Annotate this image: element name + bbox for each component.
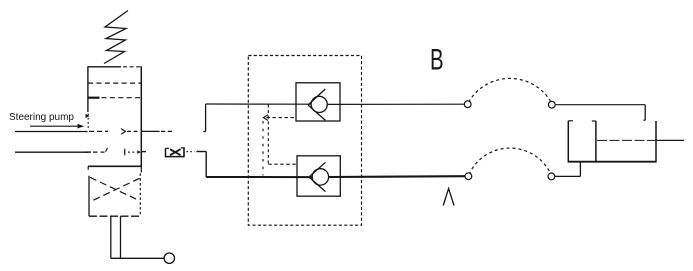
dotted link after coupling [187, 151, 195, 153]
line from A coupler to cylinder base [555, 162, 581, 176]
valve section divider 2 [88, 97, 141, 99]
coupler circle A right [548, 173, 555, 180]
valve section divider (dashed) [88, 82, 141, 84]
valve outlet stub lower (port A side) [141, 151, 146, 153]
coupler circle B left [464, 101, 471, 108]
valve outlet line upper (port B side) [141, 130, 172, 132]
valve internal flow path T (dashed with ticks) [85, 148, 141, 156]
line from B coupler to cylinder head [555, 105, 645, 121]
lower main line (to A, heavy) [206, 175, 465, 178]
pilot line from upper line to lower check valve [268, 105, 297, 165]
pump supply line (upper) [15, 131, 88, 133]
upper check valve CV1 [296, 83, 340, 121]
coupler circle A left [465, 173, 472, 180]
spring [104, 11, 128, 64]
valve internal flow path P (dashed with arrow) [89, 129, 138, 135]
cylinder body [568, 121, 657, 162]
label A [443, 189, 454, 206]
valve closed position box with X [89, 174, 140, 217]
valve body upper section [88, 66, 141, 166]
coupler circle B right [548, 101, 555, 108]
dashed enclosure (check valve block) [248, 56, 361, 226]
tank port circle [164, 253, 174, 263]
return line (lower) [15, 151, 89, 153]
svg-text:B: B [430, 44, 444, 77]
tank line (double) [111, 216, 164, 258]
hose arc A (dashed) [469, 148, 551, 175]
valve position indicator arrow [86, 114, 90, 118]
hose arc B (dashed) [469, 78, 552, 102]
piston rod [597, 139, 684, 141]
upper main line (to B) [206, 103, 466, 105]
elbow to upper main line [203, 104, 205, 132]
pilot line from lower line to upper check valve [263, 115, 296, 176]
coupling / orifice box with X [166, 148, 185, 157]
svg-text:Steering pump: Steering pump [9, 112, 74, 123]
elbow to lower main line [196, 152, 206, 178]
cylinder piston [592, 121, 596, 162]
steering pump pointer arrow [30, 124, 84, 129]
valve bottom separator line [88, 166, 142, 172]
lower check valve CV2 [297, 156, 340, 196]
